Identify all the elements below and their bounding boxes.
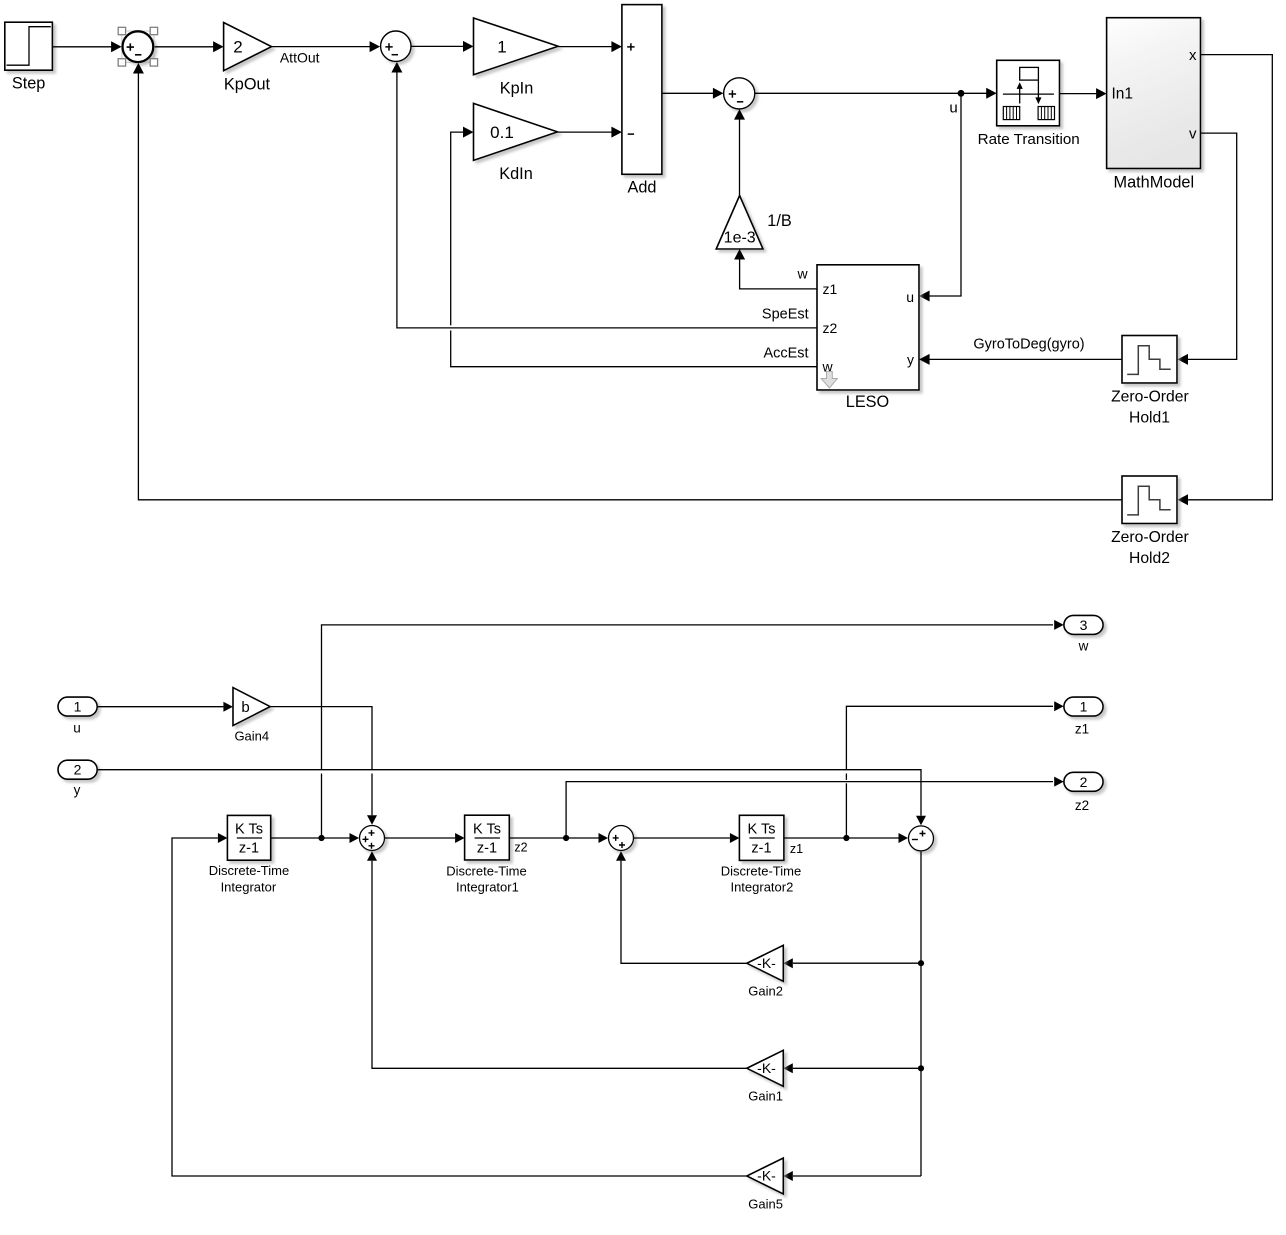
inport 1 u [58,697,97,735]
svg-text:w: w [796,265,808,281]
wire LESO z1 output to 1e-3 gain signal w [734,249,817,289]
svg-text:In1: In1 [1112,86,1134,103]
outport 1 z1 [1064,697,1103,736]
wire inport u to Gain4 [97,702,233,712]
wire KpIn to Add plus input [558,41,622,52]
wire Sum1 to KpIn [412,41,474,52]
block Add [622,5,662,197]
block Discrete-Time Integrator [209,815,289,894]
wire LESO w output to KdIn signal AccEst [451,127,817,367]
svg-text:Hold1: Hold1 [1129,410,1170,427]
svg-text:0.1: 0.1 [490,123,514,142]
wire MathModel x output to Zero-Order Hold2 [1178,55,1273,506]
selection handle top-right of Sum [150,27,157,34]
svg-text:Add: Add [628,179,657,197]
wire Sum5 line to Gain5 input [783,1171,921,1181]
subsystem LESO [817,265,919,411]
gain KdIn value 0.1 [474,103,558,183]
outport 3 w [1064,615,1103,653]
svg-text:z-1: z-1 [477,841,497,857]
selection handle bottom-left of Sum [118,59,125,66]
svg-text:Rate Transition: Rate Transition [978,131,1080,148]
svg-text:Integrator2: Integrator2 [730,880,793,895]
svg-text:Gain1: Gain1 [748,1089,783,1104]
svg-text:1e-3: 1e-3 [724,230,756,247]
wire junction to outport w [322,620,1064,838]
wire node u down to LESO input u [919,93,961,301]
junction node u [958,90,965,97]
junction on Integrator output [318,835,324,841]
svg-text:Integrator1: Integrator1 [456,880,519,895]
junction to Gain2 [918,960,924,966]
svg-text:z2: z2 [823,320,838,336]
svg-text:Gain5: Gain5 [748,1196,783,1211]
svg-text:w: w [1078,639,1089,654]
svg-text:1: 1 [1080,699,1088,715]
svg-text:-K-: -K- [757,1060,776,1076]
block Rate Transition [978,60,1080,148]
svg-text:2: 2 [233,38,242,57]
svg-text:z-1: z-1 [751,841,771,857]
gain Gain5 value -K- [747,1158,784,1211]
svg-text:1: 1 [74,699,82,715]
svg-text:z2: z2 [1075,798,1089,813]
block Zero-Order Hold1 [1111,336,1189,427]
subsystem MathModel [1107,18,1201,192]
svg-text:Discrete-Time: Discrete-Time [209,863,289,878]
svg-text:Discrete-Time: Discrete-Time [721,863,801,878]
svg-text:y: y [907,351,914,367]
svg-text:Discrete-Time: Discrete-Time [446,863,526,878]
wire Sum to KpOut [155,41,224,52]
svg-text:v: v [1189,125,1197,142]
wire Rate Transition to MathModel [1060,88,1107,99]
block Step [5,22,53,92]
svg-text:u: u [906,289,914,305]
junction to Gain1 [918,1065,924,1071]
wire KdIn to Add minus input [558,127,622,138]
sum Sum [122,31,154,62]
svg-text:Hold2: Hold2 [1129,550,1170,567]
svg-text:u: u [949,100,957,117]
wire Integrator1 to Sum4 with junction [509,833,608,843]
svg-text:KpIn: KpIn [500,80,534,98]
svg-text:Integrator: Integrator [221,879,277,894]
svg-text:K Ts: K Ts [473,821,501,837]
wire Zero-Order Hold1 to LESO y input signal GyroToDeg(gyro) [919,336,1122,365]
svg-text:KdIn: KdIn [499,165,533,183]
sum Sum3 three plus inputs [360,826,385,851]
svg-text:-K-: -K- [757,1168,776,1184]
sum Sum2 [724,78,755,109]
svg-text:x: x [1189,47,1197,64]
wire Step to Sum [52,41,121,52]
svg-text:SpeEst: SpeEst [762,306,809,322]
svg-text:2: 2 [74,762,82,778]
inport 2 y [58,760,97,797]
svg-text:Step: Step [12,74,46,92]
sum Sum4 two plus inputs [609,826,634,851]
wire Sum2 to Rate Transition with node u [755,88,997,117]
svg-text:1/B: 1/B [767,212,791,230]
wire inport y to Sum5 top input [97,770,926,826]
selection handle top-left of Sum [118,27,125,34]
wire Zero-Order Hold2 to Sum feedback [133,63,1122,500]
junction on Integrator2 output [843,835,849,841]
svg-text:Gain4: Gain4 [234,729,269,744]
svg-text:Zero-Order: Zero-Order [1111,529,1189,546]
wire Gain5 output to Discrete-Time Integrator input [172,833,747,1176]
gain 1/B value 1e-3 [716,196,792,250]
wire junction to Gain1 input [783,1063,921,1073]
wire KpOut to Sum1 signal AttOut [272,41,381,66]
gain Gain1 value -K- [747,1050,784,1103]
outport 2 z2 [1064,772,1103,813]
gain Gain2 value -K- [747,945,784,998]
svg-text:GyroToDeg(gyro): GyroToDeg(gyro) [973,336,1084,352]
wire Gain4 to Sum3 top input [270,707,377,825]
wire Sum4 to Discrete-Time Integrator2 [634,833,739,843]
svg-text:K Ts: K Ts [748,821,776,837]
sum Sum5 minus plus [909,826,934,851]
svg-text:2: 2 [1080,774,1088,790]
wire MathModel v output to Zero-Order Hold1 [1178,133,1237,365]
wire junction to Gain2 input [783,958,921,968]
gain Gain4 value b [233,688,270,744]
svg-text:K Ts: K Ts [235,821,263,837]
gain KpOut value 2 [224,23,272,94]
svg-text:z1: z1 [1075,721,1089,736]
wire LESO z2 output to Sum1 bottom signal SpeEst [391,62,817,328]
selection handle bottom-right of Sum [150,59,157,66]
svg-text:MathModel: MathModel [1114,174,1195,192]
svg-text:z1: z1 [823,281,838,297]
wire Discrete-Time Integrator to Sum3 with node to outport w [271,833,359,843]
wire junction to outport z2 [566,777,1064,838]
wire Sum3 to Discrete-Time Integrator1 [385,833,465,843]
unconnected port arrow below w inside LESO [821,372,837,389]
svg-text:z2: z2 [514,841,527,855]
wire Add to Sum2 [662,88,724,99]
svg-text:z1: z1 [790,842,803,856]
block Discrete-Time Integrator2 [721,815,803,894]
wire Gain2 output to Sum4 bottom input [616,851,747,963]
svg-text:AccEst: AccEst [763,346,808,362]
svg-text:1: 1 [497,37,506,56]
svg-text:LESO: LESO [846,393,889,411]
svg-text:-K-: -K- [757,955,776,971]
svg-text:y: y [74,782,81,797]
svg-text:z-1: z-1 [239,841,259,857]
svg-text:b: b [241,699,249,716]
svg-text:AttOut: AttOut [280,50,320,66]
sum Sum1 [381,31,411,61]
wire Integrator2 to Sum5 with junction [784,833,908,843]
svg-text:u: u [73,720,81,735]
wire junction to outport z1 [846,701,1063,838]
svg-text:Gain2: Gain2 [748,984,783,999]
wire Gain1 output to Sum3 bottom input [367,851,747,1068]
block Zero-Order Hold2 [1111,476,1189,567]
wire Sum5 output down to gains [920,852,922,1176]
gain KpIn value 1 [474,18,559,98]
svg-text:KpOut: KpOut [224,75,271,93]
svg-text:3: 3 [1080,617,1088,633]
block Discrete-Time Integrator1 [446,815,527,894]
wire 1e-3 gain to Sum2 bottom input [734,109,745,195]
junction on Integrator1 output [563,835,569,841]
svg-text:Zero-Order: Zero-Order [1111,389,1189,406]
